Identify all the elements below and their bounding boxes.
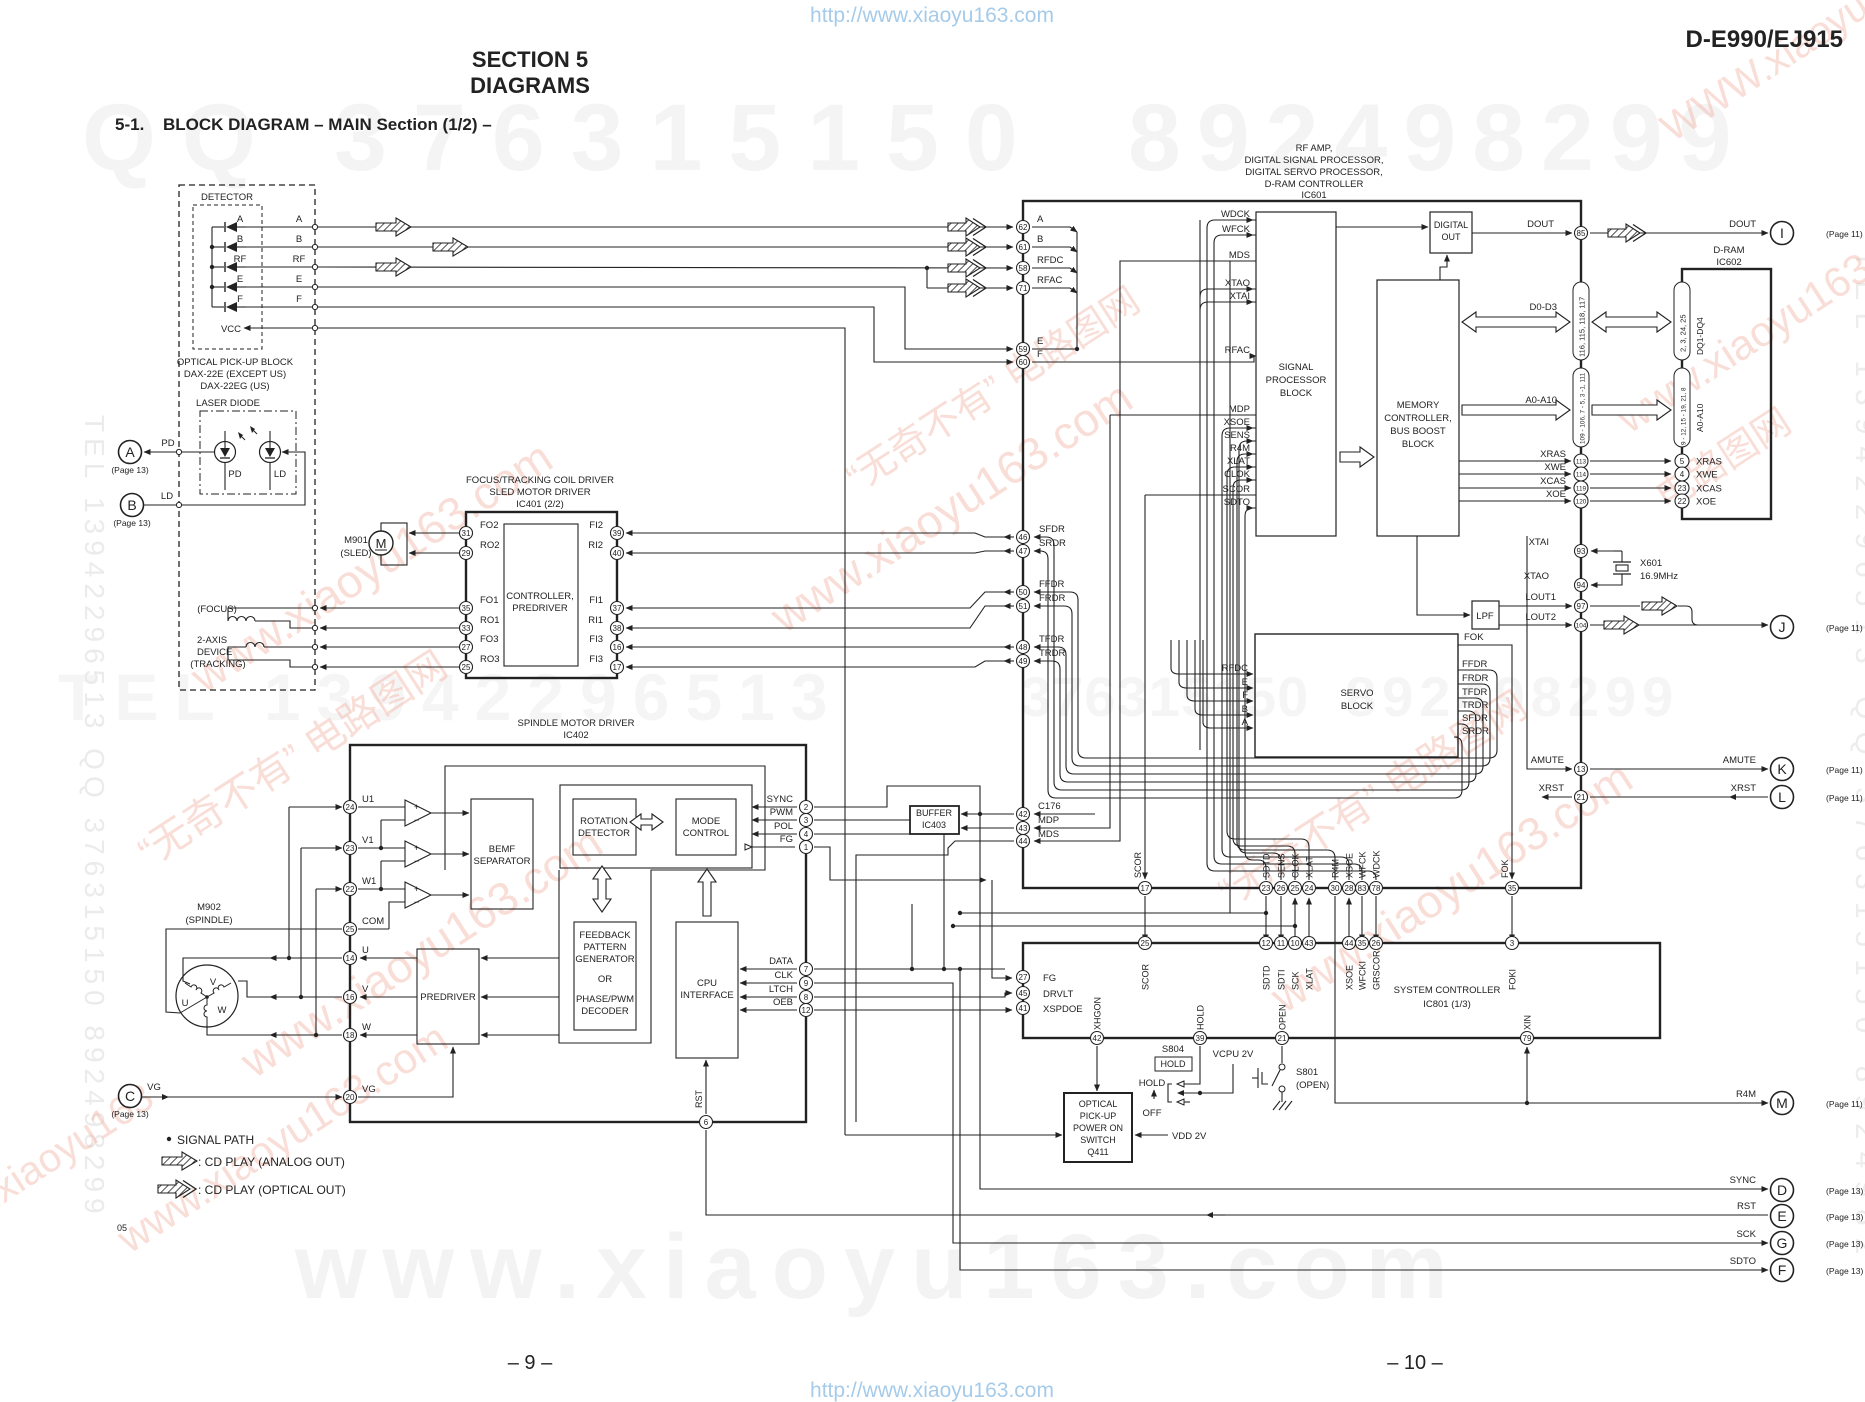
svg-text:18: 18 (346, 1031, 355, 1040)
wire COM (358, 928, 389, 930)
servo block (1255, 634, 1458, 757)
svg-text:GRSCOR: GRSCOR (1372, 950, 1382, 990)
IC801 bottom pin rotated labels (1093, 997, 1533, 1030)
svg-text:2-AXIS: 2-AXIS (197, 635, 227, 646)
svg-text:37: 37 (613, 604, 622, 613)
servo drive U-routes (1034, 537, 1497, 798)
IC601 left pins (1017, 221, 1030, 234)
svg-text:FFDR: FFDR (1462, 659, 1487, 670)
svg-text:M901: M901 (344, 535, 368, 546)
svg-text:25: 25 (346, 925, 355, 934)
Q411 optical pickup power switch (1064, 1046, 1132, 1162)
svg-text:XTAO: XTAO (1524, 571, 1549, 582)
IC402 right pin labels (767, 794, 794, 1008)
focus coil (228, 605, 318, 630)
IC801 system controller (1023, 943, 1660, 1038)
bus vertical to servo inputs (1200, 220, 1230, 913)
svg-text:114: 114 (1576, 471, 1587, 478)
connector E (1737, 1201, 1863, 1228)
svg-text:DIAGRAMS: DIAGRAMS (470, 73, 590, 98)
IC801 top pins (1139, 937, 1152, 950)
M901 sled motor (340, 523, 407, 565)
svg-text:SDTD: SDTD (1262, 965, 1272, 990)
svg-text:HOLD: HOLD (1139, 1078, 1166, 1089)
svg-text:SFDR: SFDR (1462, 713, 1488, 724)
IC401 focus/tracking coil driver (466, 475, 617, 678)
svg-text:J: J (1779, 619, 1786, 635)
svg-text:SLED MOTOR DRIVER: SLED MOTOR DRIVER (489, 487, 590, 498)
svg-text:WFCK: WFCK (1222, 224, 1251, 235)
svg-text:16: 16 (346, 993, 355, 1002)
svg-text:26: 26 (1277, 884, 1286, 893)
svg-text:28: 28 (1345, 884, 1354, 893)
svg-text:SWITCH: SWITCH (1080, 1135, 1116, 1145)
svg-text:FG: FG (780, 834, 793, 845)
crossing junction rows (951, 911, 1297, 928)
svg-text:VDD 2V: VDD 2V (1172, 1131, 1207, 1142)
svg-text:SEPARATOR: SEPARATOR (473, 856, 530, 867)
svg-text:−: − (414, 856, 419, 866)
svg-text:9: 9 (804, 979, 809, 988)
wire digital out feed (1440, 255, 1447, 280)
svg-text:SIGNAL: SIGNAL (1279, 362, 1314, 373)
svg-text:XTAI: XTAI (1230, 291, 1250, 302)
svg-text:LPF: LPF (1476, 611, 1494, 622)
svg-text:(Page 11): (Page 11) (1826, 765, 1863, 775)
svg-text:58: 58 (1019, 264, 1028, 273)
IC402 right pins (800, 801, 813, 814)
svg-text:A: A (125, 444, 135, 460)
svg-text:XSOE: XSOE (1224, 417, 1250, 428)
signal processor stub labels (1221, 209, 1256, 508)
svg-text:21: 21 (1278, 1034, 1287, 1043)
switch S801 open (1252, 1046, 1329, 1110)
wire RI2 from IC601 pin 47 (626, 551, 1005, 553)
svg-text:51: 51 (1019, 602, 1028, 611)
laser light arrows (238, 426, 257, 440)
svg-text:BLOCK: BLOCK (1402, 439, 1435, 450)
svg-text:PD: PD (228, 469, 241, 480)
IC801 left pins (1017, 971, 1030, 984)
svg-text:(FOCUS): (FOCUS) (197, 604, 237, 615)
svg-text:DAX-22EG (US): DAX-22EG (US) (200, 381, 269, 392)
svg-text:E: E (1777, 1208, 1786, 1224)
svg-text:LOUT1: LOUT1 (1525, 592, 1556, 603)
svg-text:RF: RF (293, 254, 306, 265)
svg-text:(Page 13): (Page 13) (111, 1109, 148, 1119)
bus D0-D3 (1462, 302, 1671, 332)
XIN riser (1526, 1047, 1528, 1103)
bus OEB to XSPDOE (814, 1009, 1012, 1011)
svg-text:HOLD: HOLD (1196, 1004, 1206, 1030)
svg-text:DIGITAL SERVO PROCESSOR,: DIGITAL SERVO PROCESSOR, (1245, 167, 1383, 178)
svg-text:SFDR: SFDR (1039, 524, 1065, 535)
svg-text:IC402: IC402 (563, 730, 588, 741)
svg-text:V: V (210, 977, 217, 988)
detector output stubs (246, 214, 318, 310)
svg-text:TEL 13942296513: TEL 13942296513 (58, 660, 844, 734)
svg-text:23: 23 (1262, 884, 1271, 893)
svg-text:38: 38 (613, 624, 622, 633)
svg-text:M: M (376, 536, 387, 551)
svg-text:10: 10 (1291, 939, 1300, 948)
svg-text:DIGITAL: DIGITAL (1434, 220, 1468, 230)
svg-text:DRVLT: DRVLT (1043, 989, 1073, 1000)
svg-text:SDTI: SDTI (1277, 969, 1287, 990)
svg-text:25: 25 (1141, 939, 1150, 948)
svg-text:OUT: OUT (1442, 232, 1462, 242)
svg-text:IC403: IC403 (922, 820, 946, 830)
rotation-mode enclosure (560, 785, 752, 868)
svg-text:46: 46 (1019, 533, 1028, 542)
svg-text:F: F (296, 294, 302, 305)
svg-text:BLOCK: BLOCK (1280, 388, 1313, 399)
VDD 2V input (1135, 1131, 1207, 1142)
svg-text:C176: C176 (1038, 801, 1061, 812)
buffer IC403 (910, 806, 959, 834)
IC601 bottom pins (1139, 882, 1152, 895)
svg-text:FO1: FO1 (480, 595, 498, 606)
svg-text:RST: RST (1737, 1201, 1756, 1212)
svg-text:33: 33 (462, 624, 471, 633)
svg-text:SPINDLE MOTOR DRIVER: SPINDLE MOTOR DRIVER (517, 718, 634, 729)
svg-text:(SPINDLE): (SPINDLE) (186, 915, 233, 926)
svg-text:3: 3 (804, 816, 809, 825)
connector M (1771, 1092, 1863, 1115)
memory controller block (1377, 280, 1459, 536)
wire C176 to buffer (961, 813, 1014, 815)
connector I (1771, 222, 1863, 245)
svg-text:FO3: FO3 (480, 634, 498, 645)
svg-text:XIN: XIN (1523, 1015, 1533, 1030)
svg-text:FO2: FO2 (480, 520, 498, 531)
XRST chain (1539, 783, 1768, 800)
svg-text:B: B (296, 234, 302, 245)
svg-text:W: W (218, 1005, 227, 1016)
hollow arrow into mode control (698, 869, 716, 916)
svg-text:OPTICAL: OPTICAL (1079, 1099, 1118, 1109)
svg-text:MDP: MDP (1038, 815, 1059, 826)
svg-text:39: 39 (613, 529, 622, 538)
switch S804 hold (1139, 1044, 1254, 1119)
svg-text:X601: X601 (1640, 558, 1662, 569)
svg-text:V1: V1 (362, 835, 374, 846)
wire FI3b from IC601 pin 49 (626, 661, 1005, 667)
svg-text:FOK: FOK (1464, 632, 1484, 643)
svg-text:24: 24 (1305, 884, 1314, 893)
wire FO1 to focus coil (320, 607, 459, 609)
wire VCC feed from Q411 (318, 328, 1062, 1135)
IC401 left pins (460, 527, 473, 540)
wire row E (318, 287, 1013, 349)
svg-text:50: 50 (1019, 588, 1028, 597)
svg-text:12: 12 (802, 1006, 811, 1015)
IC402 left pin labels (362, 794, 384, 1095)
svg-text:DATA: DATA (769, 956, 794, 967)
svg-text:INTERFACE: INTERFACE (680, 990, 733, 1001)
svg-text:41: 41 (1019, 1004, 1028, 1013)
svg-text:FRDR: FRDR (1039, 593, 1066, 604)
svg-text:: CD PLAY (OPTICAL OUT): : CD PLAY (OPTICAL OUT) (198, 1183, 346, 1197)
IC401 right pins (611, 527, 624, 540)
connector L (1771, 786, 1863, 809)
svg-text:www.xiaoyu163.com: www.xiaoyu163.com (294, 1216, 1464, 1318)
svg-text:SENS: SENS (1224, 430, 1250, 441)
svg-text:IC602: IC602 (1716, 257, 1741, 268)
wire row B (318, 238, 1013, 256)
svg-text:21: 21 (1577, 793, 1586, 802)
svg-text:PATTERN: PATTERN (584, 942, 627, 953)
svg-text:http://www.xiaoyu163.com: http://www.xiaoyu163.com (810, 4, 1054, 27)
svg-text:CONTROL: CONTROL (683, 828, 729, 839)
svg-text:FI3: FI3 (589, 634, 603, 645)
svg-text:11: 11 (1277, 939, 1286, 948)
wire row RF-RFDC (318, 258, 1013, 277)
svg-text:A0-A10: A0-A10 (1695, 403, 1705, 432)
svg-text:104: 104 (1576, 622, 1587, 629)
svg-text:D-RAM: D-RAM (1713, 245, 1744, 256)
svg-text:29: 29 (462, 549, 471, 558)
svg-text:M902: M902 (197, 902, 221, 913)
op-amp outputs to BEMF (431, 812, 469, 814)
svg-text:35: 35 (1358, 939, 1367, 948)
wire FI1 from IC601 pin 50 (626, 592, 1005, 608)
svg-text:60: 60 (1019, 358, 1028, 367)
predriver block (417, 949, 479, 1044)
svg-text:OPTICAL PICK-UP BLOCK: OPTICAL PICK-UP BLOCK (177, 357, 294, 368)
svg-text:42: 42 (1093, 1034, 1102, 1043)
signal processor block (1256, 212, 1336, 536)
photodiode A (212, 214, 246, 232)
svg-text:MDP: MDP (1229, 404, 1250, 415)
svg-text:113: 113 (1576, 458, 1587, 465)
svg-text:CONTROLLER,: CONTROLLER, (1384, 413, 1452, 424)
servo output FOK (1458, 632, 1512, 879)
svg-text:DECODER: DECODER (581, 1006, 629, 1017)
svg-text:RF: RF (234, 254, 247, 265)
svg-text:42: 42 (1019, 810, 1028, 819)
svg-text:RFAC: RFAC (1225, 345, 1250, 356)
svg-text:376315150: 376315150 (1020, 665, 1309, 728)
svg-text:L: L (1778, 789, 1786, 805)
IC401 pin labels (480, 520, 603, 665)
svg-text:DIGITAL SIGNAL PROCESSOR,: DIGITAL SIGNAL PROCESSOR, (1244, 155, 1383, 166)
svg-text:97: 97 (1577, 602, 1586, 611)
svg-text:CLK: CLK (775, 970, 794, 981)
connector D (1730, 1175, 1864, 1202)
svg-text:25: 25 (462, 663, 471, 672)
bus LTCH to DRVLT (814, 993, 1012, 997)
svg-text:(Page 13): (Page 13) (1826, 1212, 1863, 1222)
svg-text:W1: W1 (362, 876, 376, 887)
svg-text:35: 35 (1508, 884, 1517, 893)
svg-text:OFF: OFF (1143, 1108, 1162, 1119)
connector F (1730, 1256, 1864, 1282)
IC401 controller predriver block (504, 524, 578, 666)
svg-text:05: 05 (117, 1223, 127, 1233)
bus FG chain to IC801 (814, 847, 986, 880)
hollow arrow SPB to memory (1340, 447, 1374, 467)
svg-text:D-E990/EJ915: D-E990/EJ915 (1686, 26, 1843, 53)
svg-text:44: 44 (1019, 837, 1028, 846)
svg-text:XCAS: XCAS (1696, 484, 1722, 495)
wire RO1 to focus coil (320, 627, 459, 629)
svg-text:IC401 (2/2): IC401 (2/2) (516, 499, 564, 510)
wire RO3 to tracking coil (320, 666, 459, 668)
svg-text:PD: PD (161, 438, 174, 449)
digital out block (1430, 212, 1472, 253)
wires mode control to right pins (745, 807, 797, 850)
input bus lines A-F to RFAC (1032, 227, 1256, 362)
svg-text:(Page 13): (Page 13) (1826, 1239, 1863, 1249)
op-amp U1 (405, 800, 431, 826)
wire FI2 from IC601 pin 46 (626, 533, 1005, 537)
svg-text:QQ 376315150: QQ 376315150 (82, 85, 1044, 191)
svg-text:(Page 13): (Page 13) (113, 518, 150, 528)
svg-text:23: 23 (346, 844, 355, 853)
svg-text:47: 47 (1019, 547, 1028, 556)
op-amp minus feedback stubs (379, 820, 405, 929)
svg-text:LOUT2: LOUT2 (1525, 612, 1556, 623)
svg-text:FFDR: FFDR (1039, 579, 1064, 590)
svg-text:XRAS: XRAS (1540, 449, 1566, 460)
svg-text:7: 7 (804, 965, 809, 974)
bus RST chain to connector E (706, 1130, 1768, 1218)
svg-text:49: 49 (1019, 657, 1028, 666)
svg-text:E: E (296, 274, 302, 285)
svg-text:(Page 13): (Page 13) (1826, 1186, 1863, 1196)
svg-text:I: I (1780, 225, 1784, 241)
IC402 inner boundary (445, 766, 765, 1043)
svg-text:40: 40 (613, 549, 622, 558)
connector A (111, 438, 214, 475)
svg-text:D0-D3: D0-D3 (1530, 302, 1557, 313)
svg-text:E: E (237, 274, 243, 285)
svg-text:TRDR: TRDR (1462, 700, 1489, 711)
svg-text:TRDR: TRDR (1039, 648, 1066, 659)
bus CLK chain to connector G (814, 983, 1768, 1243)
svg-text:24: 24 (346, 803, 355, 812)
svg-text:TFDR: TFDR (1462, 687, 1487, 698)
svg-text:XOE: XOE (1546, 489, 1566, 500)
wire FI3 from IC601 pin 48 (626, 646, 1005, 648)
svg-text:6: 6 (704, 1118, 709, 1127)
svg-text:RO2: RO2 (480, 540, 500, 551)
svg-text:FEEDBACK: FEEDBACK (579, 930, 631, 941)
svg-text:SDTO: SDTO (1730, 1256, 1756, 1267)
svg-text:– 9 –: – 9 – (508, 1352, 553, 1374)
svg-text:LD: LD (161, 491, 173, 502)
pin capsule 2-25 (1674, 282, 1705, 360)
svg-text:IC601: IC601 (1301, 190, 1326, 201)
svg-text:2, 3, 24, 25: 2, 3, 24, 25 (1679, 314, 1688, 352)
svg-text:892498299: 892498299 (1128, 85, 1748, 191)
svg-text:BLOCK DIAGRAM – MAIN Section: BLOCK DIAGRAM – MAIN Section (1/2) – (163, 115, 492, 134)
svg-text:30: 30 (1331, 884, 1340, 893)
svg-text:PREDRIVER: PREDRIVER (512, 603, 568, 614)
bus POL chain (814, 834, 944, 969)
servo outputs FFDR-SRDR (1454, 659, 1497, 745)
svg-text:79: 79 (1523, 1034, 1532, 1043)
connector C (111, 1082, 342, 1119)
svg-text:23: 23 (1678, 484, 1687, 493)
svg-text:22: 22 (346, 885, 355, 894)
svg-text:RFDC: RFDC (1222, 663, 1249, 674)
bus PWM to buffer (814, 819, 910, 821)
svg-text:SYSTEM CONTROLLER: SYSTEM CONTROLLER (1394, 985, 1501, 996)
svg-text:93: 93 (1577, 547, 1586, 556)
svg-text:OR: OR (598, 974, 612, 985)
svg-text:BEMF: BEMF (489, 844, 516, 855)
RST internal wire (705, 1060, 707, 1114)
bus SDTO chain to connector F (958, 967, 1768, 1270)
svg-text:XHGON: XHGON (1093, 997, 1103, 1030)
svg-text:DQ1-DQ4: DQ1-DQ4 (1695, 317, 1705, 355)
RST pin 6 (700, 1116, 713, 1129)
svg-text:DEVICE: DEVICE (197, 647, 232, 658)
svg-text:A0-A10: A0-A10 (1525, 395, 1557, 406)
connector G (1736, 1229, 1863, 1255)
svg-text:PHASE/PWM: PHASE/PWM (576, 994, 634, 1005)
svg-text:SERVO: SERVO (1340, 688, 1373, 699)
svg-text:E: E (1037, 336, 1043, 347)
connector K (1771, 758, 1863, 781)
svg-text:XTAO: XTAO (1225, 278, 1250, 289)
svg-text:+: + (414, 802, 419, 812)
svg-text:FI3: FI3 (589, 654, 603, 665)
mode control block (676, 799, 736, 855)
svg-text:FI1: FI1 (589, 595, 603, 606)
svg-text:8: 8 (804, 993, 809, 1002)
IC801 top pin rotated labels (1141, 950, 1518, 990)
svg-text:39: 39 (1196, 1034, 1205, 1043)
IC402 left pins (344, 801, 357, 814)
svg-text:27: 27 (1019, 973, 1028, 982)
wire row F (318, 307, 1013, 362)
crystal X601 (1524, 537, 1678, 585)
svg-text:XCAS: XCAS (1540, 476, 1566, 487)
svg-text:(TRACKING): (TRACKING) (190, 659, 245, 670)
svg-text:WFCKI: WFCKI (1358, 961, 1368, 990)
svg-text:K: K (1777, 761, 1787, 777)
svg-text:(Page 11): (Page 11) (1826, 1099, 1863, 1109)
connector J (1771, 616, 1863, 639)
LPF block (1417, 536, 1499, 629)
svg-text:59: 59 (1019, 345, 1028, 354)
svg-text:SIGNAL PATH: SIGNAL PATH (177, 1133, 254, 1147)
svg-text:POL: POL (774, 821, 793, 832)
svg-text:COM: COM (362, 916, 384, 927)
svg-text:FOCUS/TRACKING COIL DRIVER: FOCUS/TRACKING COIL DRIVER (466, 475, 614, 486)
IC601 title (1244, 143, 1383, 201)
svg-text:DETECTOR: DETECTOR (578, 828, 630, 839)
svg-text:PROCESSOR: PROCESSOR (1266, 375, 1327, 386)
IC601 outline (1023, 201, 1581, 888)
svg-text:XOE: XOE (1696, 497, 1716, 508)
bus SYNC chain to connector D (814, 786, 1768, 1189)
svg-text:FG: FG (1043, 973, 1056, 984)
svg-text:FOKI: FOKI (1508, 969, 1518, 990)
IC601 bottom pin rotated labels (1262, 851, 1382, 879)
wire COM net to motor (166, 929, 342, 1013)
svg-text:http://www.xiaoyu163.com: http://www.xiaoyu163.com (810, 1379, 1054, 1402)
wire W1 net (314, 889, 342, 1037)
svg-text:48: 48 (1019, 643, 1028, 652)
svg-text:XTAI: XTAI (1529, 537, 1549, 548)
svg-text:GENERATOR: GENERATOR (575, 954, 634, 965)
svg-text:LASER DIODE: LASER DIODE (196, 398, 260, 409)
IC801 bottom pins (1091, 1032, 1104, 1045)
